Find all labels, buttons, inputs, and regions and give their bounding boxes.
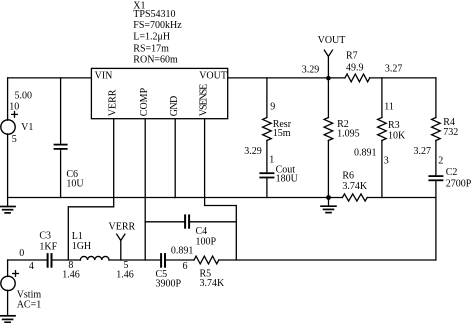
svg-text:FS=700kHz: FS=700kHz	[133, 20, 182, 31]
wire COMP pin down	[144, 119, 146, 260]
svg-text:C3: C3	[39, 230, 51, 241]
op-amp/regulator X1 TPS54310 box	[91, 68, 227, 118]
svg-text:9: 9	[270, 101, 275, 112]
svg-text:VSENSE: VSENSE	[198, 84, 209, 117]
wire VERR pin down	[68, 119, 113, 260]
wire Vstim bottom lead	[7, 290, 9, 315]
svg-text:6: 6	[183, 261, 188, 272]
svg-text:COMP: COMP	[139, 87, 150, 116]
svg-text:VOUT: VOUT	[318, 35, 346, 46]
svg-text:3.29: 3.29	[244, 146, 261, 157]
svg-text:2: 2	[438, 156, 443, 167]
resistor R3	[381, 78, 383, 118]
svg-text:3: 3	[384, 156, 389, 167]
svg-text:L=1.2μH: L=1.2μH	[133, 32, 170, 43]
svg-text:AC=1: AC=1	[17, 299, 42, 310]
resistor R6	[342, 194, 367, 201]
svg-text:100P: 100P	[196, 236, 217, 247]
wire bottom rail	[8, 259, 436, 261]
wire VIN rail top-left	[8, 77, 92, 79]
svg-text:180U: 180U	[276, 174, 299, 185]
ground (Vstim)	[0, 315, 16, 317]
capacitor Cout	[266, 141, 268, 173]
svg-text:GND: GND	[169, 96, 180, 117]
svg-text:1.46: 1.46	[62, 269, 79, 280]
svg-text:3900P: 3900P	[156, 279, 182, 290]
svg-text:11: 11	[384, 102, 394, 113]
svg-text:3.27: 3.27	[414, 146, 432, 157]
svg-text:1.095: 1.095	[337, 129, 360, 140]
svg-text:49.9: 49.9	[346, 62, 364, 73]
svg-text:0: 0	[19, 248, 24, 259]
svg-text:C2: C2	[446, 167, 458, 178]
svg-text:2700P: 2700P	[446, 179, 471, 190]
svg-text:732: 732	[443, 127, 458, 138]
voltage source Vstim	[7, 260, 9, 277]
svg-text:RS=17m: RS=17m	[133, 44, 169, 55]
wire node3 down to bottom rail	[435, 198, 437, 261]
wire VOUT rail	[228, 77, 345, 79]
svg-text:1.46: 1.46	[116, 269, 134, 280]
svg-text:0.891: 0.891	[171, 246, 194, 257]
capacitor C6	[60, 78, 62, 144]
resistor Resr	[266, 78, 268, 118]
svg-text:VERR: VERR	[107, 89, 118, 116]
wire V1 top lead	[7, 78, 9, 120]
junction dot ground node	[326, 195, 331, 200]
capacitor C3	[47, 253, 49, 268]
svg-text:5.00: 5.00	[15, 90, 33, 101]
svg-text:10: 10	[9, 101, 19, 112]
wire GND pin down	[174, 119, 176, 198]
svg-text:3.29: 3.29	[302, 65, 320, 76]
net flag VERR	[117, 234, 125, 260]
ground (middle)	[328, 198, 330, 207]
svg-text:C4: C4	[196, 226, 208, 237]
svg-text:R3: R3	[388, 120, 400, 131]
inductor L1	[80, 256, 109, 260]
svg-text:3.74K: 3.74K	[342, 181, 368, 192]
svg-text:VIN: VIN	[95, 71, 113, 82]
resistor R7	[345, 74, 370, 82]
svg-text:3.27: 3.27	[385, 64, 403, 75]
svg-text:1KF: 1KF	[39, 242, 57, 253]
capacitor C2	[435, 141, 437, 176]
resistor R4	[435, 78, 437, 118]
svg-text:R7: R7	[346, 51, 358, 62]
wire V1 bottom lead	[7, 134, 9, 198]
svg-text:V1: V1	[21, 122, 33, 133]
voltage source V1	[1, 120, 15, 134]
svg-text:1GH: 1GH	[72, 241, 91, 252]
svg-text:4: 4	[29, 261, 34, 272]
net flag VOUT	[324, 50, 332, 78]
svg-text:TPS54310: TPS54310	[133, 9, 175, 20]
svg-text:1: 1	[269, 155, 274, 166]
resistor R2	[327, 78, 329, 118]
svg-text:VERR: VERR	[109, 222, 136, 233]
svg-text:R6: R6	[342, 170, 354, 181]
svg-text:VOUT: VOUT	[199, 71, 227, 82]
svg-text:RON=60m: RON=60m	[133, 55, 178, 66]
resistor R5	[194, 256, 219, 264]
svg-text:10K: 10K	[388, 130, 406, 141]
svg-text:10U: 10U	[66, 179, 84, 190]
svg-text:0.891: 0.891	[354, 147, 377, 158]
svg-text:15m: 15m	[273, 128, 291, 139]
wire ground rail	[8, 197, 343, 199]
capacitor C5	[160, 253, 162, 268]
capacitor C4	[145, 221, 236, 223]
svg-text:5: 5	[12, 134, 17, 145]
svg-text:3.74K: 3.74K	[200, 278, 226, 289]
ground (left)	[7, 198, 9, 207]
wire VSENSE pin down	[205, 119, 237, 260]
junction dot VOUT node	[326, 76, 331, 81]
